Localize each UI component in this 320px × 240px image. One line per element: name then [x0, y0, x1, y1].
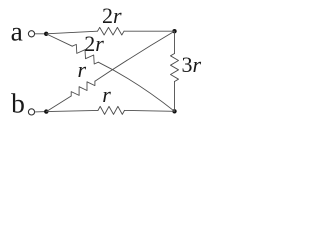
wire bottom resistor to bottom-right node	[125, 109, 175, 112]
wire diagonal resistor to crossing	[98, 62, 174, 111]
label terminal b	[11, 90, 25, 118]
resistor 2r top zigzag	[98, 27, 125, 35]
wire diagonal resistor to crossing	[95, 31, 174, 81]
label 2r diagonal	[84, 33, 104, 55]
wire a to diagonal resistor	[46, 34, 72, 46]
label terminal a	[11, 18, 23, 46]
node bottom-right dot	[172, 109, 176, 113]
terminal b circle	[28, 109, 34, 115]
resistor 2r diagonal zigzag	[72, 44, 98, 64]
wire top resistor to top-right node	[124, 30, 175, 32]
label 2r top	[102, 5, 122, 27]
wire 3r to bottom-right node	[174, 82, 176, 112]
wire a to top resistor	[46, 31, 97, 34]
label 3r	[182, 54, 202, 76]
wire top-right node down to 3r	[174, 31, 176, 53]
resistor r bottom zigzag	[98, 106, 125, 114]
node top-right dot	[172, 29, 176, 33]
resistor r diagonal zigzag	[71, 81, 95, 96]
wire b to bottom resistor	[46, 110, 98, 111]
node a dot	[44, 32, 48, 36]
resistor 3r zigzag	[171, 54, 179, 82]
node b dot	[44, 109, 48, 113]
wire b terminal to node	[35, 111, 47, 113]
label r bottom	[102, 84, 111, 106]
terminal a circle	[28, 31, 34, 37]
wire a terminal to node	[35, 33, 47, 35]
wire b to diagonal resistor	[46, 96, 71, 112]
label r diagonal	[78, 59, 87, 81]
